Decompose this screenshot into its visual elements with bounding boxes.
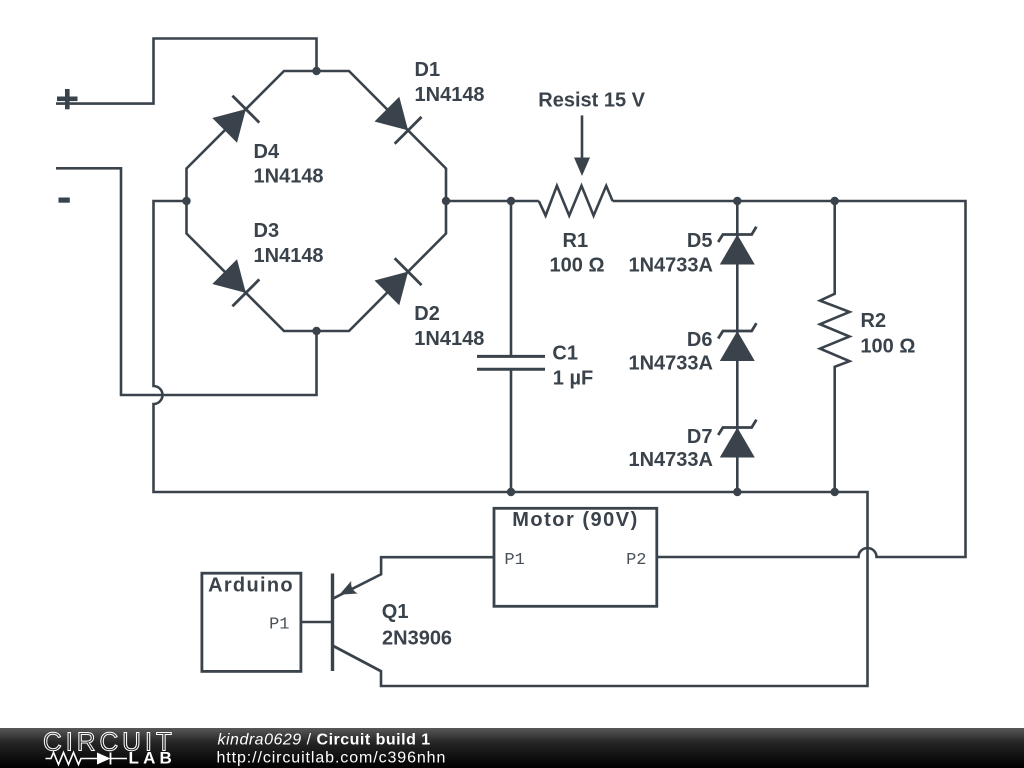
svg-text:100 Ω: 100 Ω bbox=[550, 255, 605, 277]
diode D3 bbox=[211, 258, 259, 306]
svg-text:http://circuitlab.com/c396nhn: http://circuitlab.com/c396nhn bbox=[217, 750, 447, 767]
logo diode bbox=[97, 753, 111, 765]
logo resistor squiggle bbox=[46, 753, 98, 765]
Motor (90V) box bbox=[494, 508, 657, 606]
svg-text:1 µF: 1 µF bbox=[553, 368, 593, 390]
svg-text:LAB: LAB bbox=[129, 749, 177, 768]
capacitor C1 bbox=[510, 201, 513, 356]
svg-text:1N4733A: 1N4733A bbox=[628, 353, 713, 375]
transistor Q1 emitter arrow bbox=[339, 581, 357, 595]
zener diode D7 bbox=[718, 420, 756, 458]
svg-text:C1: C1 bbox=[552, 343, 578, 365]
wire zener chain bbox=[736, 201, 739, 492]
node bridge top bbox=[312, 67, 320, 75]
svg-text:P1: P1 bbox=[269, 616, 289, 635]
svg-text:P2: P2 bbox=[626, 551, 646, 570]
diode D1 bbox=[373, 96, 421, 144]
svg-text:1N4733A: 1N4733A bbox=[628, 255, 713, 277]
voltage annotation arrow (Resist 15 V) bbox=[581, 115, 584, 159]
diode D2 bbox=[373, 258, 421, 306]
node D7 bottom bbox=[733, 488, 741, 496]
zener diode D5 bbox=[718, 227, 756, 265]
svg-text:D1: D1 bbox=[415, 59, 441, 81]
svg-text:D4: D4 bbox=[254, 141, 280, 163]
svg-text:1N4733A: 1N4733A bbox=[628, 449, 713, 471]
svg-text:D2: D2 bbox=[414, 303, 440, 325]
svg-text:1N4148: 1N4148 bbox=[254, 245, 324, 267]
zener diode D6 bbox=[718, 323, 756, 361]
svg-text:R2: R2 bbox=[861, 310, 887, 332]
resistor R1 bbox=[539, 186, 613, 216]
wire motor P1 to Q1 emitter bbox=[334, 557, 495, 598]
svg-text:100 Ω: 100 Ω bbox=[860, 336, 915, 358]
svg-text:Resist 15 V: Resist 15 V bbox=[538, 90, 645, 112]
svg-text:D6: D6 bbox=[687, 329, 713, 351]
svg-text:P1: P1 bbox=[504, 551, 524, 570]
wire minus terminal to bridge bottom node bbox=[56, 168, 317, 395]
svg-text:R1: R1 bbox=[563, 230, 589, 252]
node bridge left bbox=[182, 197, 190, 205]
wire plus terminal to bridge top node bbox=[56, 39, 317, 104]
wire bridge right node to R1 bbox=[446, 200, 539, 203]
node C1 bottom bbox=[507, 488, 515, 496]
svg-text:Q1: Q1 bbox=[382, 601, 409, 623]
svg-text:D7: D7 bbox=[687, 426, 713, 448]
plus terminal bbox=[57, 89, 78, 109]
svg-text:1N4148: 1N4148 bbox=[415, 84, 485, 106]
node R2 top bbox=[831, 197, 839, 205]
node D5 top bbox=[733, 197, 741, 205]
svg-text:Arduino: Arduino bbox=[208, 575, 294, 597]
resistor R2 bbox=[820, 201, 850, 492]
svg-text:kindra0629 / Circuit build 1: kindra0629 / Circuit build 1 bbox=[218, 732, 431, 749]
bridge octagon wires bbox=[187, 71, 447, 331]
svg-text:D3: D3 bbox=[254, 220, 280, 242]
svg-text:2N3906: 2N3906 bbox=[382, 628, 452, 650]
svg-text:1N4148: 1N4148 bbox=[414, 328, 484, 350]
wire bridge left node to ground rail, hop, collector loop bbox=[154, 201, 868, 686]
Arduino box bbox=[202, 573, 301, 671]
node bridge right bbox=[442, 197, 450, 205]
transistor Q1 collector diagonal bbox=[333, 646, 381, 671]
wire Arduino P1 to Q1 base bbox=[301, 621, 333, 624]
node R2 bottom bbox=[831, 488, 839, 496]
svg-text:1N4148: 1N4148 bbox=[254, 165, 324, 187]
transistor Q1 base bar bbox=[331, 574, 334, 672]
node C1 top bbox=[507, 197, 515, 205]
node bridge bottom bbox=[312, 327, 320, 335]
svg-text:D5: D5 bbox=[687, 230, 713, 252]
svg-text:Motor (90V): Motor (90V) bbox=[512, 509, 639, 531]
minus terminal bbox=[59, 198, 70, 203]
wire R1 to right corner, down, hop over collector wire, to motor P2 bbox=[613, 201, 966, 557]
diode D4 bbox=[211, 96, 259, 144]
